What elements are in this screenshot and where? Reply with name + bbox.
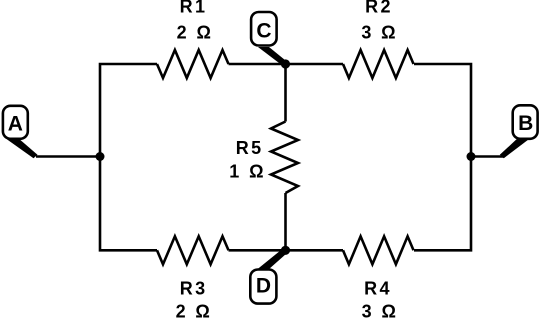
wire top-right (R2 to right corner): [414, 64, 471, 157]
svg-text:3 Ω: 3 Ω: [362, 302, 399, 319]
svg-text:1 Ω: 1 Ω: [229, 162, 266, 182]
resistor R3: [157, 236, 229, 264]
svg-text:C: C: [256, 20, 271, 43]
svg-text:2 Ω: 2 Ω: [177, 23, 214, 43]
svg-text:R2: R2: [365, 0, 393, 16]
node D callout box: [250, 249, 286, 304]
svg-text:D: D: [256, 275, 271, 298]
wire C to R5: [284, 64, 287, 122]
svg-text:B: B: [518, 112, 533, 135]
svg-text:A: A: [8, 113, 23, 136]
svg-text:R4: R4: [364, 279, 392, 299]
wire node B lead: [471, 155, 504, 158]
wire top-left (left corner to R1): [100, 64, 157, 157]
resistor R2: [343, 50, 414, 78]
resistor R4: [343, 236, 414, 264]
node C junction dot: [281, 59, 290, 68]
svg-text:R1: R1: [180, 0, 208, 16]
node A callout box: [3, 106, 38, 158]
wire R5 to D: [284, 193, 287, 250]
wire left vertical lower (node to bottom-left corner): [100, 157, 157, 251]
svg-text:2 Ω: 2 Ω: [176, 302, 213, 319]
svg-text:R3: R3: [180, 279, 208, 299]
wire right vertical lower (node to bottom-right corner): [414, 157, 471, 251]
svg-text:3 Ω: 3 Ω: [361, 23, 398, 43]
wire bottom middle (R3 to R4 through node D): [229, 249, 344, 252]
node A junction dot: [96, 152, 105, 161]
node C callout box: [251, 12, 286, 66]
wire top middle (R1 to R2 through node C): [229, 63, 344, 66]
node B junction dot: [467, 152, 476, 161]
node B callout box: [500, 105, 538, 158]
resistor R1: [157, 50, 229, 78]
resistor R5: [271, 122, 298, 194]
svg-text:R5: R5: [236, 138, 264, 158]
node D junction dot: [281, 246, 290, 255]
wire node A lead: [36, 155, 100, 158]
